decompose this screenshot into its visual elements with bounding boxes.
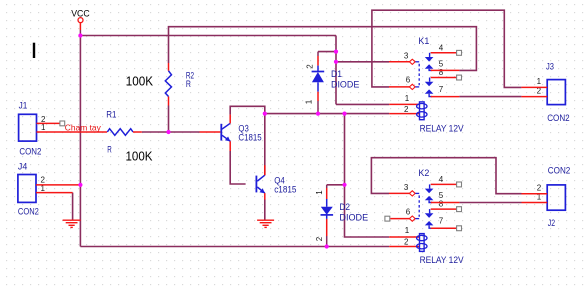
svg-text:1: 1	[405, 94, 410, 103]
wire R2 bottom to base node	[168, 106, 170, 133]
K1 mechanical link	[418, 64, 420, 85]
svg-text:7: 7	[439, 85, 444, 94]
svg-text:R: R	[186, 79, 191, 89]
cursor I-bar	[33, 43, 35, 58]
K2 coil	[389, 236, 419, 238]
svg-text:2: 2	[537, 183, 542, 192]
junction collector node	[263, 112, 267, 116]
K2 pin8 contact	[429, 209, 431, 213]
svg-text:CON2: CON2	[19, 147, 41, 157]
junction K1 pin3 node	[334, 60, 338, 64]
K2 pin4 contact	[429, 184, 431, 188]
K2 mechanical link	[418, 195, 420, 216]
svg-text:RELAY 12V: RELAY 12V	[420, 255, 464, 265]
svg-text:2: 2	[404, 238, 409, 247]
svg-text:J4: J4	[18, 161, 27, 171]
diode D2	[315, 185, 368, 247]
svg-text:4: 4	[439, 44, 444, 53]
svg-text:2: 2	[315, 236, 324, 241]
wire VCC horizontal rail	[80, 35, 336, 37]
svg-text:RELAY 12V: RELAY 12V	[420, 123, 464, 133]
svg-text:4: 4	[439, 175, 444, 184]
K1 pin7 contact	[425, 89, 434, 93]
svg-text:R: R	[107, 144, 112, 154]
connector J2	[522, 165, 571, 228]
transistor Q3	[200, 115, 262, 151]
wire D2 anode stub	[327, 184, 345, 186]
svg-text:D1: D1	[331, 69, 342, 79]
svg-text:CON2: CON2	[548, 165, 571, 175]
resistor R1	[106, 110, 142, 155]
K1 pin3	[389, 61, 410, 63]
ground (J4)	[63, 220, 81, 227]
svg-text:100K: 100K	[126, 149, 154, 163]
wire base node	[142, 131, 200, 133]
K1 pin4 contact	[429, 53, 431, 57]
svg-text:1: 1	[405, 226, 410, 235]
svg-text:CON2: CON2	[18, 207, 39, 217]
ground (Q4 emitter)	[257, 220, 274, 227]
svg-text:c1815: c1815	[274, 185, 296, 195]
wire J4 pin1 to ground	[72, 193, 74, 220]
svg-text:K2: K2	[418, 168, 429, 178]
wire K1 pin7 to J3 pin2	[459, 96, 521, 98]
K1 pin8 contact	[429, 78, 431, 82]
svg-text:3: 3	[404, 183, 409, 192]
K2 pin3	[389, 192, 410, 194]
svg-text:8: 8	[439, 199, 444, 208]
svg-text:DIODE: DIODE	[339, 213, 368, 223]
junction J4 pin2 node	[78, 183, 82, 187]
svg-text:3: 3	[404, 52, 409, 61]
svg-text:8: 8	[439, 68, 444, 77]
relay K2	[385, 168, 464, 265]
wire Q3 collector riser	[230, 106, 265, 175]
wire D1 cathode stub	[318, 51, 336, 53]
junction D1 cathode node	[334, 50, 338, 54]
wire branch to K2 coil pin1	[345, 114, 390, 237]
svg-text:VCC: VCC	[71, 8, 90, 18]
power VCC	[71, 8, 90, 35]
junction D2 cathode node	[325, 244, 329, 248]
svg-text:100K: 100K	[126, 75, 154, 89]
svg-text:K1: K1	[418, 36, 429, 46]
junction base node	[166, 130, 170, 134]
wire K2 pin5 to J2 pin1	[459, 202, 521, 204]
svg-text:C1815: C1815	[238, 132, 261, 142]
svg-text:CON2: CON2	[547, 113, 570, 123]
wire VCC drop to K1	[335, 36, 337, 105]
wire VCC left vertical	[79, 36, 81, 247]
diode D1	[305, 52, 360, 114]
svg-text:R1: R1	[106, 110, 116, 120]
transistor Q4	[256, 165, 297, 199]
junction VCC node	[78, 33, 82, 37]
svg-text:7: 7	[439, 217, 444, 226]
svg-text:J2: J2	[548, 218, 555, 228]
net stub square (J1 pin2)	[60, 121, 65, 126]
wire K1 coil pin1	[336, 103, 389, 105]
wire Q3 emitter to Q4 base	[230, 151, 245, 184]
K2 pin5 contact	[425, 196, 434, 200]
wire K1 pin3	[336, 61, 389, 63]
junction D2 anode node	[342, 183, 346, 187]
wire collector node to K1 coil pin2	[265, 113, 389, 115]
svg-text:Cham tay: Cham tay	[65, 123, 102, 133]
svg-text:6: 6	[406, 207, 411, 216]
connector J4	[18, 161, 81, 216]
connector J3	[521, 61, 569, 123]
svg-text:2: 2	[404, 105, 409, 114]
svg-text:2: 2	[306, 64, 315, 69]
connector J1	[19, 101, 107, 157]
svg-text:DIODE: DIODE	[331, 80, 359, 90]
svg-text:6: 6	[406, 76, 411, 85]
relay K1	[389, 36, 464, 133]
wire bottom rail	[80, 246, 389, 248]
K2 pin7 contact	[425, 221, 434, 225]
wire K2 pin3 to J2 pin2 loop	[371, 158, 521, 194]
svg-text:J3: J3	[546, 61, 554, 71]
wire Q4 emitter to ground	[264, 200, 266, 220]
junction D1 anode node	[316, 112, 320, 116]
svg-text:1: 1	[305, 99, 314, 104]
svg-text:1: 1	[537, 77, 542, 86]
svg-text:1: 1	[315, 190, 324, 195]
K1 coil	[389, 103, 419, 105]
junction K2 branch node	[342, 112, 346, 116]
K1 pin5 contact	[425, 64, 434, 68]
svg-text:1: 1	[41, 123, 46, 132]
K2 pin6	[385, 216, 390, 221]
K1 pin6	[389, 86, 410, 88]
wire R2 top to K1 pin5	[169, 27, 477, 71]
svg-text:J1: J1	[19, 101, 28, 111]
svg-text:D2: D2	[339, 202, 350, 212]
resistor R2	[165, 63, 194, 106]
wire K1 pin6 to J3 pin1 loop	[372, 10, 522, 87]
